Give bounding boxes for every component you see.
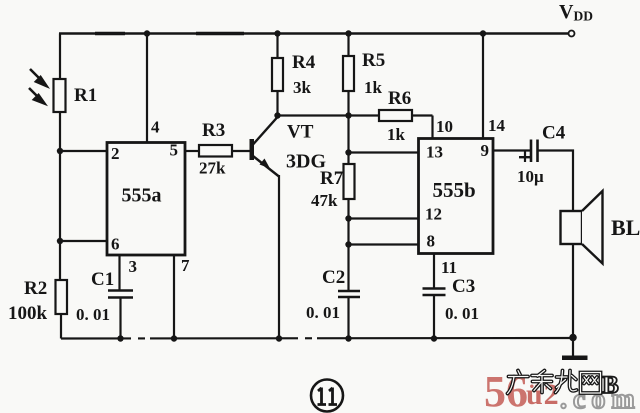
wire pin12 — [349, 217, 419, 219]
wire pin3 stub — [118, 255, 120, 291]
capacitor C1 — [108, 289, 133, 292]
wire pin6 — [60, 240, 107, 242]
svg-text:C4: C4 — [542, 123, 566, 144]
svg-text:C2: C2 — [322, 267, 345, 288]
wire emitter vertical — [278, 175, 280, 339]
wire pin8 — [349, 243, 419, 245]
svg-text:0. 01: 0. 01 — [76, 305, 110, 324]
svg-text:R2: R2 — [24, 278, 47, 299]
node junction pin8 — [345, 241, 351, 247]
node junction emitter rail — [276, 335, 282, 341]
node junction C1 rail — [117, 335, 123, 341]
wire speaker to ground — [572, 244, 574, 356]
node junction pin6 — [57, 238, 63, 244]
node junction top rail R4 — [274, 30, 280, 36]
node junction pin7 rail — [171, 335, 177, 341]
ground — [562, 356, 588, 361]
svg-text:5: 5 — [170, 141, 179, 160]
svg-text:R7: R7 — [320, 168, 344, 189]
wire pin14 stub — [482, 34, 484, 139]
wire pin13 — [349, 151, 419, 153]
svg-text:7: 7 — [181, 256, 190, 275]
wire top rail — [59, 32, 568, 34]
svg-text:9: 9 — [481, 141, 490, 160]
node junction C3 rail — [431, 335, 437, 341]
svg-text:VT: VT — [287, 122, 314, 143]
node junction C2 rail — [345, 335, 351, 341]
svg-text:2: 2 — [111, 144, 120, 163]
wire collector horizontal — [278, 114, 380, 116]
svg-text:V: V — [559, 1, 574, 23]
svg-text:C1: C1 — [91, 269, 114, 290]
svg-text:R3: R3 — [202, 120, 225, 141]
svg-text:11: 11 — [441, 258, 457, 277]
svg-text:R6: R6 — [388, 88, 411, 109]
svg-text:13: 13 — [426, 143, 443, 162]
svg-text:47k: 47k — [311, 191, 338, 210]
wire pin9 — [493, 149, 531, 151]
resistor R6 — [379, 110, 412, 121]
svg-text:3: 3 — [129, 257, 138, 276]
svg-text:1k: 1k — [364, 78, 383, 97]
svg-text:DD: DD — [574, 9, 594, 24]
svg-text:100k: 100k — [8, 303, 48, 324]
svg-text:10: 10 — [436, 117, 453, 136]
speaker BL — [561, 211, 583, 244]
svg-text:12: 12 — [425, 205, 442, 224]
wire pin2 — [60, 150, 107, 152]
resistor R1 — [54, 79, 66, 112]
node junction pin2 — [57, 148, 63, 154]
wire pin10 stub — [431, 116, 433, 139]
node junction pin13 — [345, 149, 351, 155]
wire pin7 stub — [173, 255, 175, 339]
resistor R7 — [347, 153, 349, 165]
node junction collector R4 — [274, 112, 280, 118]
resistor R3 — [185, 150, 199, 152]
svg-text:1k: 1k — [387, 125, 406, 144]
resistor R4 — [276, 34, 278, 59]
resistor R2 — [60, 279, 61, 281]
node VDD terminal — [569, 31, 575, 37]
svg-text:27k: 27k — [199, 159, 226, 178]
svg-text:3k: 3k — [293, 78, 312, 97]
svg-text:10μ: 10μ — [517, 167, 544, 186]
node junction top rail pin4 — [144, 30, 150, 36]
svg-text:4: 4 — [151, 118, 160, 137]
capacitor C4 — [530, 140, 533, 163]
figure number circled 11 — [311, 380, 343, 412]
resistor R5 — [347, 34, 349, 57]
node junction pin12 — [345, 215, 351, 221]
node junction top rail R5 — [345, 30, 351, 36]
node junction rail right — [569, 334, 577, 342]
svg-text:R5: R5 — [362, 50, 385, 71]
svg-text:R4: R4 — [292, 52, 316, 73]
wire pin4 — [146, 34, 148, 143]
op-amp U1 555a box — [107, 143, 185, 256]
wire C4 to speaker — [538, 151, 574, 212]
wire bottom rail — [61, 337, 573, 340]
svg-text:0. 01: 0. 01 — [306, 303, 340, 322]
svg-text:BL: BL — [611, 215, 640, 240]
transistor Q1 VT — [250, 139, 255, 160]
svg-text:555b: 555b — [433, 178, 476, 202]
light arrow 1 — [30, 69, 47, 86]
op-amp U2 555b box — [419, 139, 494, 254]
node junction top rail pin14 — [480, 30, 486, 36]
svg-text:6: 6 — [111, 235, 120, 254]
wire left vertical R1 branch — [59, 34, 61, 281]
light arrow 2 — [29, 88, 45, 104]
svg-text:555a: 555a — [122, 185, 162, 207]
svg-text:14: 14 — [488, 116, 506, 135]
svg-text:R1: R1 — [74, 85, 97, 106]
capacitor C2 — [338, 290, 360, 293]
svg-text:8: 8 — [427, 232, 436, 251]
svg-text:0. 01: 0. 01 — [445, 304, 479, 323]
capacitor C3 — [423, 287, 446, 290]
svg-text:B: B — [602, 372, 619, 399]
wire pin11 stub — [433, 254, 435, 289]
node junction R5 collector line — [345, 112, 351, 118]
svg-text:C3: C3 — [452, 276, 475, 297]
